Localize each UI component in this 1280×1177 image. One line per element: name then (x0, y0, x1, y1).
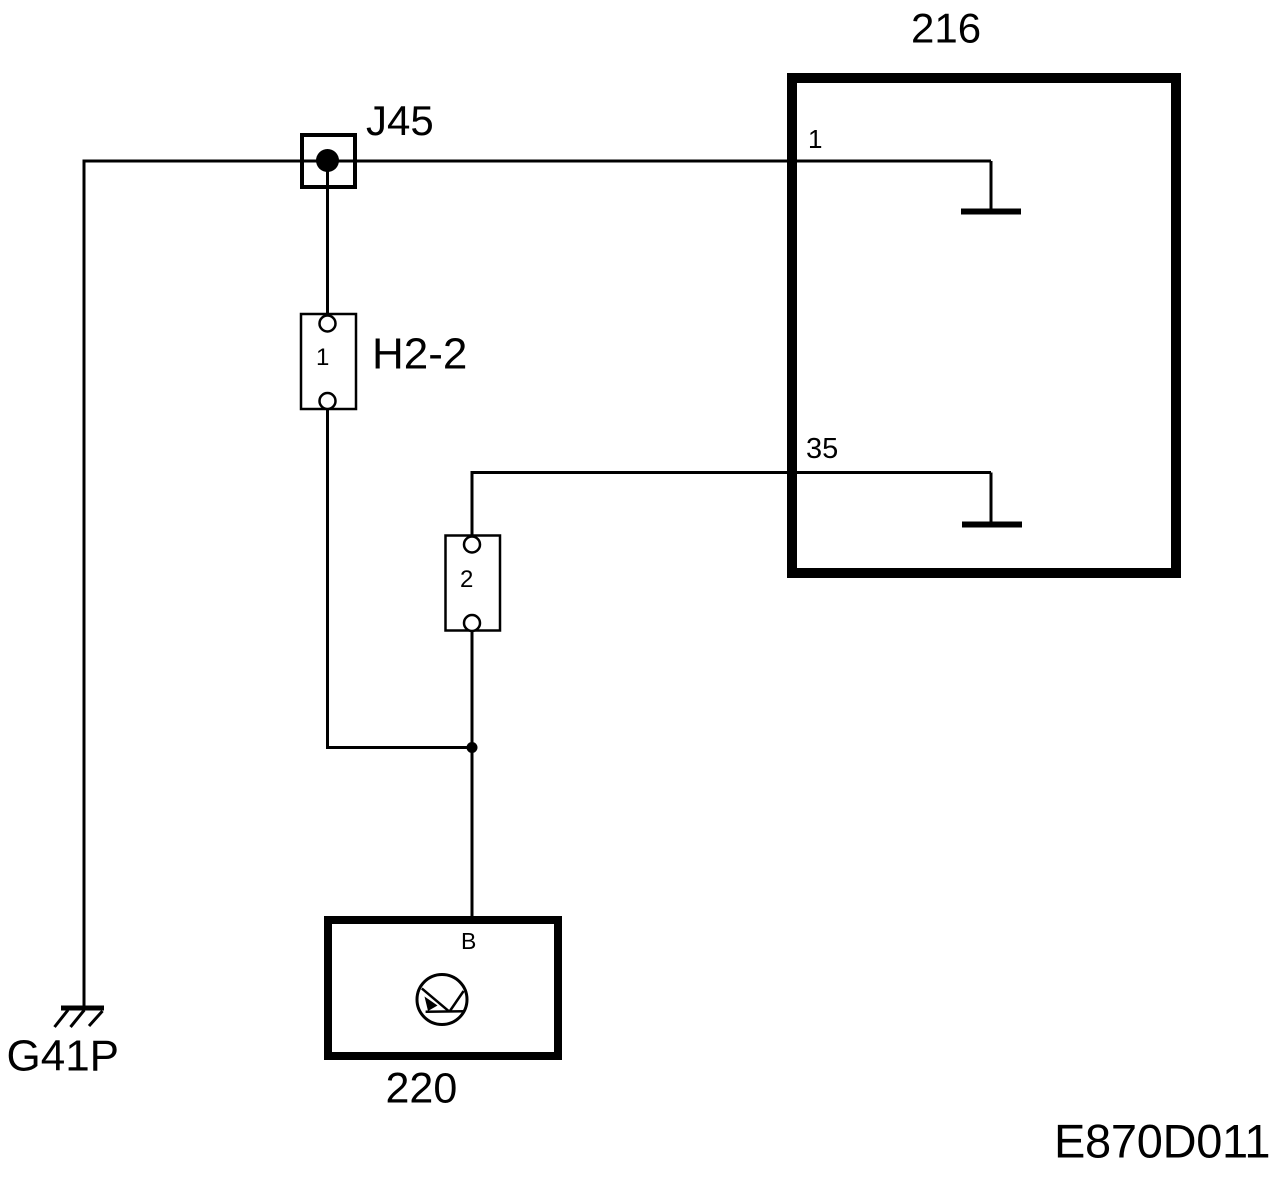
connector 2 bottom pin circle (464, 615, 480, 631)
connector 2 box (446, 536, 501, 631)
ECM box 216 (792, 78, 1176, 573)
svg-text:1: 1 (808, 124, 822, 154)
svg-text:220: 220 (386, 1065, 458, 1113)
svg-text:35: 35 (806, 433, 838, 465)
wire: left vertical riser to ground G41P (83, 160, 86, 1007)
wire: connector 2 bottom down through junction to component 220 (471, 630, 474, 922)
internal ground at ECM pin 1 (961, 161, 1021, 212)
connector H2-2 top pin circle (320, 316, 336, 332)
svg-text:B: B (461, 928, 476, 954)
junction J45 dot (316, 149, 339, 172)
wire: ECM pin 35 net, horizontal then down to connector 2 (472, 473, 991, 539)
connector H2-2 box (301, 314, 356, 409)
svg-text:1: 1 (316, 344, 329, 371)
junction J45 box (302, 135, 355, 187)
svg-text:2: 2 (460, 566, 473, 593)
svg-text:G41P: G41P (7, 1032, 120, 1081)
svg-text:216: 216 (911, 5, 981, 52)
wire: top horizontal bus from left riser to ECM pin 1 ground (84, 160, 991, 163)
connector 2 top pin circle (464, 537, 480, 553)
internal ground at ECM pin 35 (962, 473, 1022, 525)
ground G41P symbol (55, 1008, 105, 1027)
svg-text:J45: J45 (366, 97, 434, 144)
svg-text:H2-2: H2-2 (372, 330, 467, 379)
node: solder junction dot (467, 742, 478, 753)
motor/pump symbol circle inside box 220 (417, 975, 467, 1025)
wire: J45 down to connector H2-2 pin (326, 161, 329, 317)
svg-text:E870D011: E870D011 (1054, 1115, 1270, 1168)
wire: H2-2 bottom pin down and right to junction node (328, 409, 473, 748)
connector H2-2 bottom pin circle (320, 393, 336, 409)
component box 220 (328, 920, 558, 1056)
